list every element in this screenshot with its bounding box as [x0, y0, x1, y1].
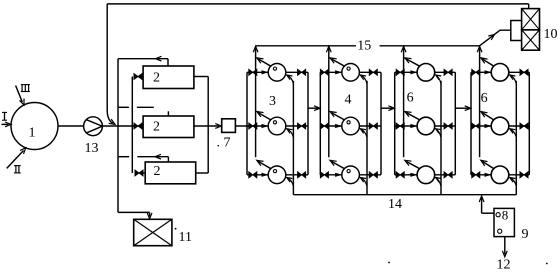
bank 4 outlet header — [528, 72, 530, 175]
wire recycle header vertical — [117, 59, 119, 213]
wire middle reactor 2 recycle loop segment b — [137, 106, 154, 108]
cyclone bank 1 bottom — [268, 166, 286, 184]
bank 3 bottom underflow return arrow — [436, 178, 441, 187]
valve bank 4 top inlet — [472, 69, 480, 75]
svg-text:10: 10 — [544, 27, 558, 42]
wire tank 1 to pump 13 — [58, 125, 84, 127]
cyclone bank 3 bottom — [417, 166, 435, 184]
label II — [14, 165, 21, 167]
wire top reactor 2 recycle loop — [118, 58, 168, 60]
wire bottom reactor 2 recycle loop segment a — [118, 156, 129, 158]
bank 3 middle feed arrow — [410, 124, 417, 128]
wire bottom reactor 2 inlet stub — [135, 172, 145, 174]
bank 4 top overflow line with arrow — [482, 59, 494, 66]
bank 2 underflow drain vertical — [366, 81, 368, 195]
bank 3 middle feed line — [395, 125, 417, 127]
bank 4 middle feed line — [471, 125, 491, 127]
valve bank 1 bottom inlet — [249, 172, 257, 178]
wire reactor outlets manifold vertical — [207, 77, 209, 174]
bank 3 top underflow return arrow — [436, 75, 441, 84]
bank 1 outlet header — [307, 72, 309, 175]
svg-text:3: 3 — [269, 94, 276, 109]
svg-text:2: 2 — [154, 164, 161, 179]
valve bank 2 bottom inlet — [320, 172, 328, 178]
bank 4 underflow drain vertical — [515, 81, 517, 195]
bank 3 bottom overflow line with arrow — [406, 162, 420, 169]
inlet arrow I — [2, 123, 9, 125]
cyclone bank 1 middle — [268, 117, 286, 135]
wire bottom reactor 2 recycle loop segment b — [137, 156, 168, 158]
valve bank 2 top outlet — [369, 69, 377, 75]
valve bank 3 top outlet — [444, 69, 452, 75]
bank 3 middle overflow line with arrow — [406, 113, 420, 120]
bank 3 outlet header — [454, 72, 456, 175]
inlet arrow III — [16, 86, 23, 103]
wire waste line to mixer 11 — [118, 211, 150, 213]
bank 4 top outlet line — [509, 71, 530, 73]
bank 4 top feed line — [471, 71, 491, 73]
bank 2 feed header — [319, 72, 321, 175]
bank 1 middle underflow return arrow — [287, 129, 294, 138]
wire overflow bus 15 right segment — [380, 45, 480, 47]
bank 2 top feed line — [320, 71, 341, 73]
valve bank 1 top outlet — [298, 69, 306, 75]
bank 2 bottom overflow line with arrow — [332, 162, 345, 169]
valve bank 4 middle inlet — [472, 123, 480, 129]
wire top reactor 2 inlet stub — [134, 76, 143, 78]
bank 2 middle feed arrow — [335, 124, 342, 128]
separator 9 discharge arrow 12 — [504, 237, 506, 255]
bank 1 top feed line — [247, 71, 268, 73]
valve bank 2 middle inlet — [320, 123, 328, 129]
bank 4 overflow riser with arrow — [479, 48, 481, 157]
separator 9 lower port — [498, 229, 502, 233]
valve bank 1 middle outlet — [298, 123, 306, 129]
valve bank 4 bottom inlet — [472, 172, 480, 178]
bank 3 bottom feed line — [395, 174, 417, 176]
bank 1 top overflow line with arrow — [258, 59, 271, 66]
cyclone bank 2 bottom — [342, 166, 360, 184]
bank 1 top outlet line — [286, 71, 308, 73]
bank 3 overflow riser with arrow — [403, 48, 405, 157]
bank 1 feed header — [246, 72, 248, 175]
exchanger 10 upper cell — [522, 9, 540, 30]
wire bank 1 outlet to bank 2 feed — [308, 107, 318, 109]
bank 2 top feed arrow — [335, 70, 342, 74]
bank 4 middle underflow return arrow — [510, 129, 517, 138]
bank 1 top underflow return arrow — [287, 75, 294, 84]
valve on top reactor 2 inlet — [134, 73, 142, 79]
bank 2 bottom feed line — [320, 174, 341, 176]
bank 1 top feed arrow — [262, 70, 269, 74]
bank 4 bottom feed line — [471, 174, 491, 176]
separator 9 upper port — [496, 213, 500, 217]
svg-text:8: 8 — [502, 208, 509, 223]
valve bank 1 middle inlet — [249, 123, 257, 129]
bank 1 bottom outlet line — [286, 174, 308, 176]
cyclone bank 4 bottom — [491, 166, 509, 184]
cyclone bank 2 top vortex finder — [347, 67, 350, 70]
label I — [2, 111, 7, 113]
bank 3 underflow drain vertical — [440, 81, 442, 195]
wire bottom reactor 2 outlet — [196, 172, 209, 174]
bank 4 top feed arrow — [485, 70, 492, 74]
exchanger 10 lower cell — [522, 30, 540, 50]
valve bank 3 middle outlet — [444, 123, 452, 129]
bank 1 middle overflow line with arrow — [258, 113, 271, 120]
valve on bottom reactor 2 inlet — [135, 170, 143, 176]
bank 3 feed header — [394, 72, 396, 175]
svg-text:1: 1 — [29, 126, 36, 141]
exchanger 10 bracket — [511, 21, 522, 41]
label III — [21, 84, 30, 86]
wire top return line — [107, 3, 529, 5]
cyclone bank 3 middle — [417, 117, 435, 135]
wire left return drop with arrow into main junction — [107, 4, 113, 123]
cyclone bank 2 top — [342, 64, 360, 82]
bank 3 top overflow line with arrow — [406, 59, 420, 66]
valve bank 3 bottom inlet — [396, 172, 404, 178]
valve on middle reactor 2 inlet — [134, 123, 142, 129]
pump 13 impeller — [86, 120, 102, 133]
wire bank 2 outlet to bank 3 feed — [381, 107, 393, 109]
cyclone bank 2 middle — [342, 117, 360, 135]
cyclone bank 4 top — [491, 64, 509, 82]
bank 1 bottom feed line — [247, 174, 268, 176]
filter 7 box — [222, 119, 236, 133]
svg-text:14: 14 — [388, 197, 402, 212]
bank 2 middle overflow line with arrow — [332, 113, 345, 120]
valve bank 1 bottom outlet — [298, 172, 306, 178]
wire middle reactor 2 outlet to filter 7 — [194, 125, 219, 127]
bank 1 bottom feed arrow — [262, 173, 269, 177]
bank 4 bottom outlet line — [509, 174, 530, 176]
speck lower right — [546, 263, 548, 265]
reactor 2 bottom — [145, 162, 196, 184]
bank 2 middle feed line — [320, 125, 341, 127]
bank 3 top feed arrow — [410, 70, 417, 74]
bank 2 middle underflow return arrow — [360, 129, 367, 138]
bank 2 top outlet line — [359, 71, 381, 73]
bank 1 middle outlet line — [286, 125, 308, 127]
valve bank 4 bottom outlet — [520, 172, 528, 178]
speck lower middle — [388, 262, 390, 264]
wire overflow bus 15 left segment — [256, 45, 356, 47]
bank 3 middle outlet line — [435, 125, 456, 127]
bank 2 outlet header — [380, 72, 382, 175]
wire middle reactor 2 recycle stub — [167, 111, 169, 116]
bank 2 top underflow return arrow — [360, 75, 367, 84]
cyclone bank 1 top — [268, 64, 286, 82]
wire valve feed header vertical — [131, 77, 133, 174]
cyclone bank 1 middle vortex finder — [273, 121, 276, 124]
bank 2 overflow riser with arrow — [328, 48, 330, 157]
bank 2 bottom outlet line — [359, 174, 381, 176]
valve bank 1 top inlet — [249, 69, 257, 75]
svg-text:2: 2 — [153, 120, 160, 135]
valve bank 4 middle outlet — [520, 123, 528, 129]
bank 4 top underflow return arrow — [510, 75, 517, 84]
cyclone bank 4 middle — [491, 117, 509, 135]
pump 13 — [84, 117, 103, 136]
bank 4 middle outlet line — [509, 125, 530, 127]
bank 4 bottom underflow return arrow — [510, 178, 517, 187]
wire top return line drop to heat-exchanger 10 — [528, 4, 530, 9]
valve bank 3 top inlet — [396, 69, 404, 75]
svg-text:6: 6 — [407, 91, 414, 106]
bank 1 underflow drain vertical — [292, 81, 294, 195]
cyclone bank 3 top — [417, 64, 435, 82]
wire top reactor 2 outlet — [194, 76, 208, 78]
wire bank 3 outlet to bank 4 feed — [455, 107, 469, 109]
valve bank 2 middle outlet — [369, 123, 377, 129]
bank 3 bottom outlet line — [435, 174, 456, 176]
bank 4 bottom overflow line with arrow — [482, 162, 494, 169]
bank 2 top overflow line with arrow — [332, 59, 345, 66]
svg-text:2: 2 — [153, 71, 160, 86]
mixer 11 box — [134, 219, 172, 245]
wire pump 13 to reactor bank — [102, 125, 143, 127]
wire middle reactor 2 recycle loop segment a — [118, 106, 129, 108]
svg-text:9: 9 — [522, 227, 529, 242]
wire filter 7 to cyclone bank 1 — [235, 125, 268, 127]
reactor 2 top — [143, 66, 194, 89]
cyclone bank 1 bottom vortex finder — [273, 170, 276, 173]
valve bank 4 top outlet — [520, 69, 528, 75]
bank 1 bottom underflow return arrow — [287, 178, 294, 187]
bank 3 top feed line — [395, 71, 417, 73]
svg-text:4: 4 — [345, 93, 352, 108]
bank 1 middle feed arrow — [262, 124, 269, 128]
valve bank 3 bottom outlet — [444, 172, 452, 178]
inlet arrow II — [7, 151, 24, 169]
bank 2 middle outlet line — [359, 125, 381, 127]
svg-text:15: 15 — [357, 39, 371, 54]
tank 1 — [11, 103, 58, 150]
cyclone bank 2 middle vortex finder — [347, 121, 350, 124]
speck near label 11 — [175, 228, 177, 230]
svg-text:12: 12 — [497, 258, 511, 270]
wire bank 4 riser to exchanger 10 with arrow — [480, 30, 511, 46]
wire underflow bus 14 — [293, 194, 516, 196]
bank 3 top outlet line — [435, 71, 456, 73]
bank 4 middle overflow line with arrow — [482, 113, 494, 120]
cyclone bank 2 bottom vortex finder — [347, 170, 350, 173]
mixer 11 cross — [134, 219, 172, 245]
svg-text:11: 11 — [179, 230, 192, 245]
svg-text:13: 13 — [85, 141, 99, 156]
valve bank 2 bottom outlet — [369, 172, 377, 178]
wire bus 14 to separator 9 with arrow — [481, 198, 483, 213]
bank 1 bottom overflow line with arrow — [258, 162, 271, 169]
svg-text:6: 6 — [481, 91, 488, 106]
bank 2 bottom underflow return arrow — [360, 178, 367, 187]
svg-text:. 7: . 7 — [217, 136, 231, 151]
bank 2 bottom feed arrow — [335, 173, 342, 177]
valve bank 3 middle inlet — [396, 123, 404, 129]
valve bank 2 top inlet — [320, 69, 328, 75]
exchanger 10 upper cross — [522, 9, 540, 30]
separator 9 box — [494, 208, 514, 236]
bank 3 middle underflow return arrow — [436, 129, 441, 138]
bank 1 overflow riser with arrow — [255, 48, 257, 157]
bank 4 feed header — [470, 72, 472, 175]
cyclone bank 1 top vortex finder — [273, 67, 276, 70]
bank 4 middle feed arrow — [485, 124, 492, 128]
bank 3 bottom feed arrow — [410, 173, 417, 177]
exchanger 10 lower cross — [522, 30, 540, 50]
bank 4 bottom feed arrow — [485, 173, 492, 177]
reactor 2 middle — [143, 116, 194, 138]
